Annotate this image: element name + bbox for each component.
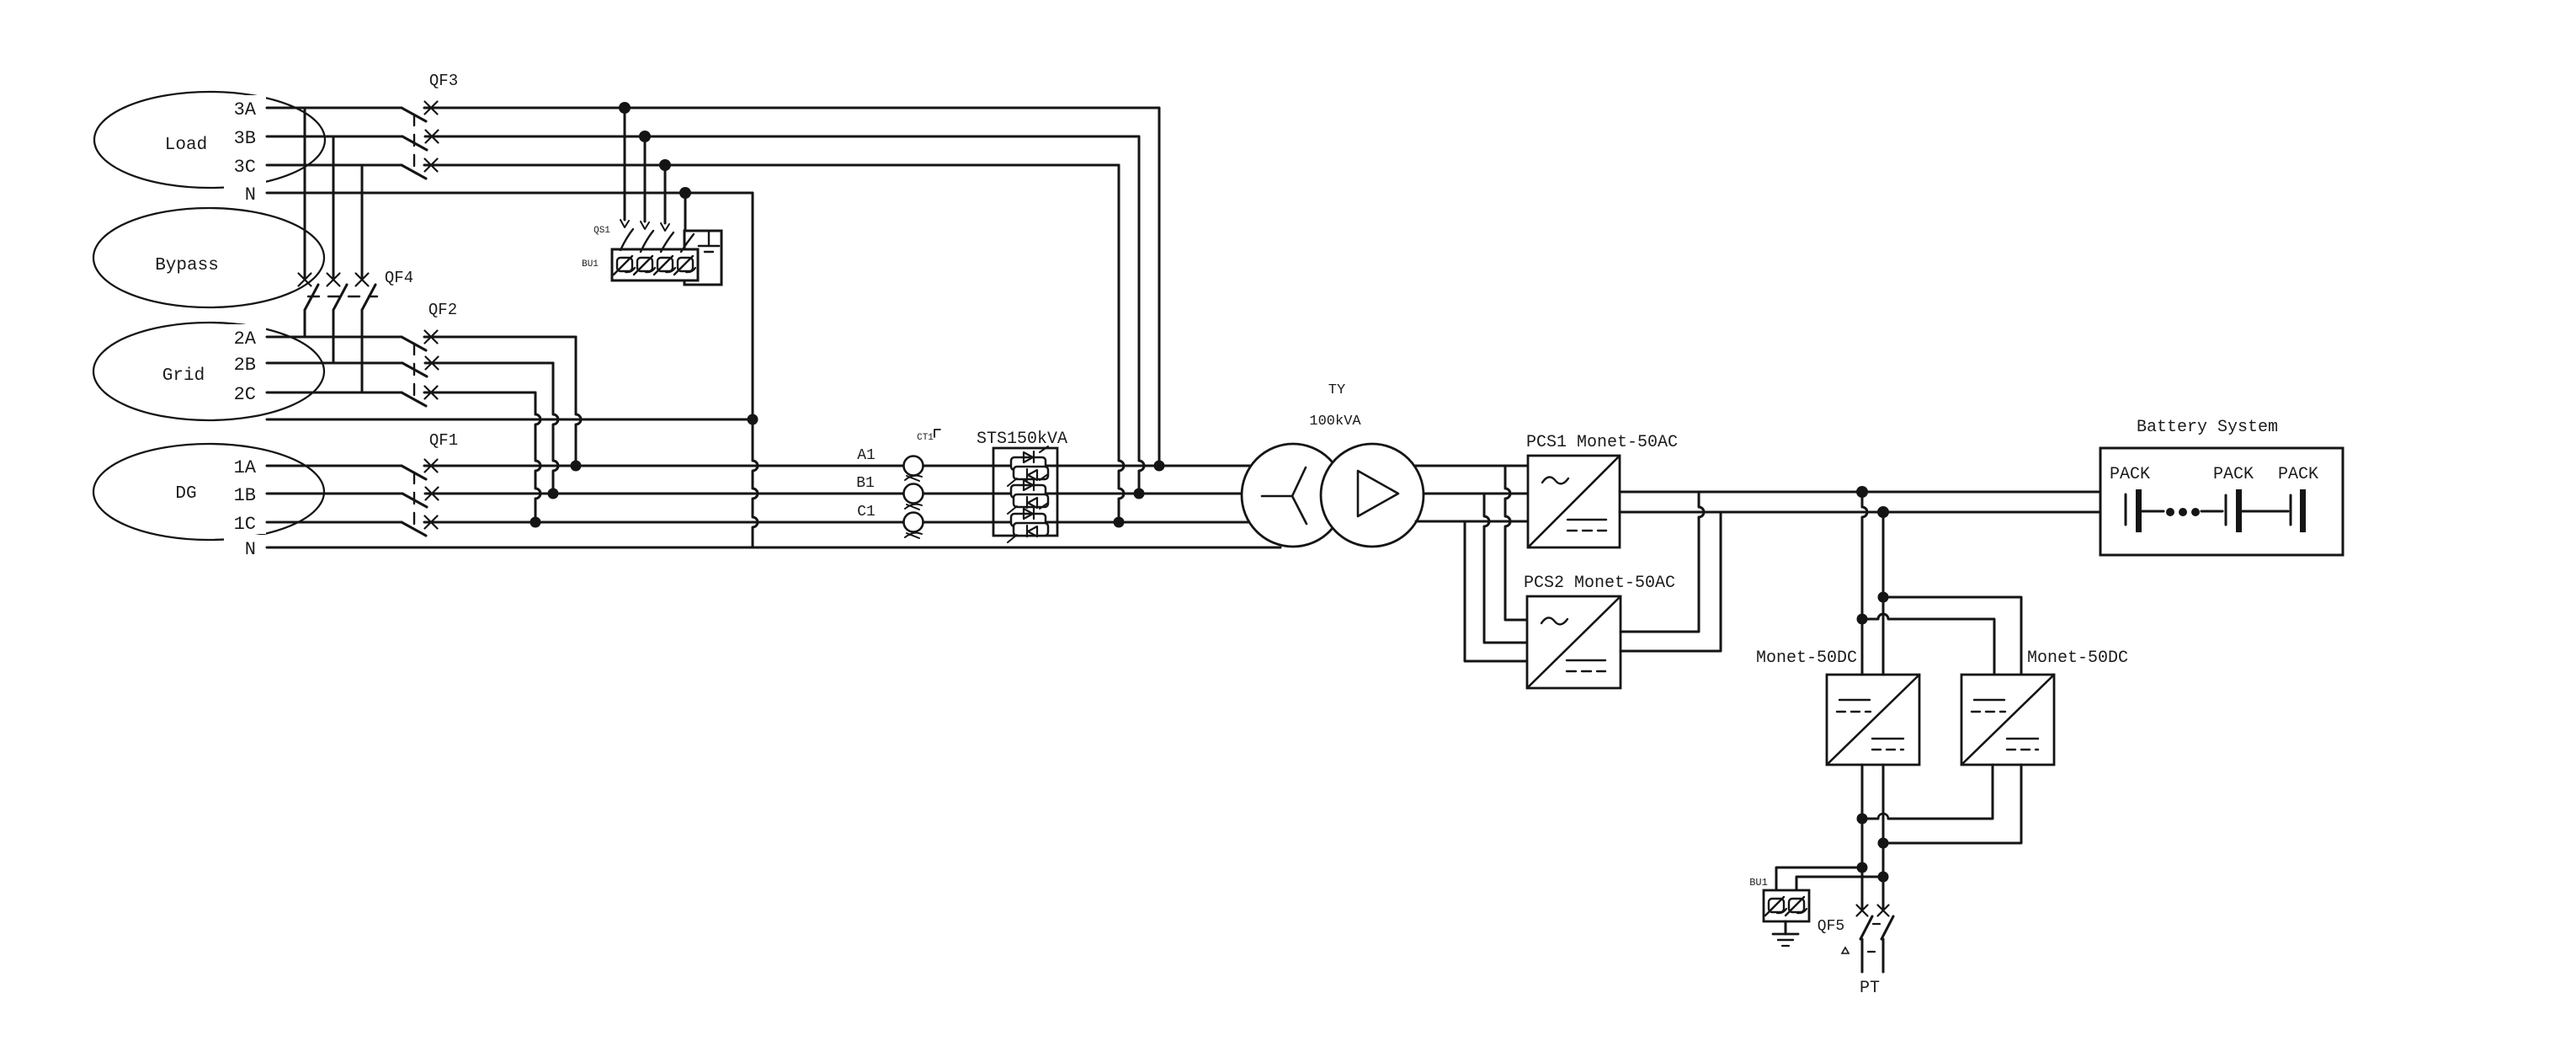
wire 2B from Grid to QF2 <box>267 362 402 365</box>
surge arrester element pole 1 <box>617 258 632 271</box>
svg-text:Battery System: Battery System <box>2137 418 2278 437</box>
STS thyristor pair phase A <box>1011 457 1046 470</box>
wire QF4 pole A to 2A <box>304 310 306 337</box>
CT CT1 phase C circle <box>904 513 923 532</box>
converter DC/DC left output DC symbol <box>1872 738 1903 739</box>
svg-text:PACK: PACK <box>2278 465 2318 484</box>
wire pack2 to pack3 <box>2242 510 2288 513</box>
wire DC negative drop <box>1882 512 1885 843</box>
converter DC/DC right input DC symbol <box>1974 699 2004 701</box>
breaker QF5 pole 1 contact X <box>1857 905 1868 916</box>
wire 2B from QF2 to corner x657 <box>425 362 553 365</box>
node N bus junction at x894 <box>748 414 758 425</box>
svg-text:1A: 1A <box>234 457 257 478</box>
wire bus A1 from QF1 to transformer <box>424 465 1252 467</box>
breaker QF5 pole 2 blade <box>1881 916 1893 939</box>
wire PCS2 output positive riser <box>1621 492 1704 632</box>
svg-text:QF5: QF5 <box>1818 918 1844 935</box>
battery system box <box>2100 448 2343 555</box>
breaker pole QF1-A blade <box>402 466 426 479</box>
ground symbol below BU1 <box>1773 933 1798 936</box>
wire branch negative to BU1 arrester <box>1796 877 1883 890</box>
svg-text:STS150kVA: STS150kVA <box>977 430 1067 449</box>
converter PCS2 box <box>1527 596 1621 688</box>
breaker pole QF1-A contact X <box>425 460 438 472</box>
wire tap 3B down to QF4 pole B <box>333 136 335 280</box>
surge arrester element pole 2 <box>637 258 652 271</box>
STS box <box>993 448 1057 536</box>
wire left DC converter input negative stub <box>1882 674 1885 676</box>
ellipsis dots between packs <box>2166 508 2174 516</box>
converter DC/DC left box <box>1827 675 1919 765</box>
QS1 disconnect arrow pole 2 <box>641 222 649 229</box>
node tap to right DC converter positive <box>1857 614 1868 625</box>
node 3C joins C1 <box>1114 517 1125 528</box>
breaker pole QF2-B blade <box>402 363 427 376</box>
svg-text:Monet-50DC: Monet-50DC <box>1756 649 1857 668</box>
converter PCS1 box <box>1528 456 1620 547</box>
svg-text:1C: 1C <box>234 514 256 535</box>
arrester BU1 box <box>1764 890 1809 921</box>
wire 2B drop to 1B bus <box>553 363 558 494</box>
wire DC positive drop <box>1862 492 1867 819</box>
arrester BU1 element 1 <box>1769 899 1784 912</box>
svg-text:TY: TY <box>1328 382 1345 398</box>
node DC bus positive tap <box>1856 486 1868 498</box>
wire branch positive to BU1 arrester <box>1776 867 1862 890</box>
breaker pole QF2-A contact X <box>425 331 438 344</box>
node 3A joins A1 <box>1154 461 1165 472</box>
source bubble Load ellipse <box>94 92 325 188</box>
CT CT1 phase A circle <box>904 456 923 476</box>
wire QF5 pole 1 to PT <box>1861 939 1864 972</box>
breaker pole QF1-C blade <box>402 522 426 536</box>
SPD ground box <box>684 231 721 285</box>
label background masks <box>224 95 266 120</box>
breaker QF4 pole C blade <box>362 285 375 310</box>
surge arrester element pole 3 <box>657 258 673 271</box>
transformer delta symbol <box>1358 471 1398 516</box>
QS1 blade curve pole 3 <box>661 232 673 252</box>
svg-text:Bypass: Bypass <box>155 256 219 275</box>
wire tap 3C down to QF4 pole C <box>361 165 364 280</box>
wire 3A from QF3 to corner x1377 <box>424 107 1159 109</box>
source bubble Grid ellipse <box>93 323 324 420</box>
svg-text:B1: B1 <box>856 475 875 492</box>
wire QF4 pole B to 2B <box>333 310 335 363</box>
QS1 blade curve pole 4 <box>681 234 694 252</box>
svg-text:BU1: BU1 <box>1749 877 1768 889</box>
svg-text:DG: DG <box>175 484 196 504</box>
breaker pole QF2-B contact X <box>426 357 439 370</box>
wire neutral bus between Grid and DG <box>267 419 753 421</box>
wire 2C from QF2 to corner x636 <box>424 392 535 394</box>
wire 2A drop to 1A bus <box>576 337 581 466</box>
node N SPD tap junction <box>679 187 691 199</box>
wire BU1 to ground <box>1785 921 1787 934</box>
CT CT1 phase A secondary squiggle <box>905 476 922 481</box>
STS thyristor pair phase C <box>1011 514 1046 526</box>
node BU1 branch negative <box>1878 872 1889 883</box>
converter DC/DC left input DC symbol <box>1839 699 1870 701</box>
svg-text:PACK: PACK <box>2213 465 2254 484</box>
breaker QF2 mechanical link (dashed) <box>413 344 415 401</box>
wire 2A from Grid to QF2 <box>267 336 402 339</box>
wire 3B tap down to QS1 pole 2 <box>644 136 647 222</box>
converter PCS2 AC sine symbol <box>1541 617 1567 624</box>
converter DC/DC right output DC symbol <box>2007 738 2038 739</box>
svg-text:3C: 3C <box>234 157 256 178</box>
node BU1 branch positive <box>1857 862 1868 873</box>
wire C1 transformer to PCS1 <box>1416 520 1528 523</box>
wire 3C from Load to QF3 <box>267 164 402 167</box>
breaker QF4 pole A contact X <box>299 274 311 286</box>
wire right converter positive join <box>1862 818 1878 820</box>
wire 2C from Grid to QF2 <box>267 392 402 394</box>
converter PCS2 diagonal <box>1527 596 1621 688</box>
node DC bus negative tap <box>1877 506 1889 518</box>
svg-text:PACK: PACK <box>2110 465 2150 484</box>
node tap to right DC converter negative <box>1878 592 1889 603</box>
svg-text:N: N <box>245 539 256 560</box>
breaker pole QF3-B blade <box>402 136 427 150</box>
svg-text:A1: A1 <box>857 447 876 464</box>
wire tap 3A down to QF4 pole A <box>304 108 306 280</box>
node parallel join positive <box>1857 814 1868 825</box>
wire dots to pack2 <box>2201 510 2222 513</box>
wire B1 transformer to PCS1 <box>1424 493 1528 495</box>
wire positive down to QF5 <box>1861 819 1864 910</box>
wire 3A tap down to QS1 pole 1 <box>624 108 626 220</box>
node 3A SPD tap junction <box>619 102 631 114</box>
svg-text:QF3: QF3 <box>429 72 458 90</box>
svg-text:2C: 2C <box>234 384 256 405</box>
wire PCS2 output negative riser <box>1621 512 1721 651</box>
breaker pole QF3-C contact X <box>425 159 438 172</box>
transformer TY primary circle (wye) <box>1242 444 1344 547</box>
wire 3C from QF3 to corner x1329 <box>424 164 1119 167</box>
breaker pole QF3-A contact X <box>425 102 438 115</box>
wire left DC converter input positive <box>1861 674 1864 676</box>
wire 1B from DG to QF1 <box>267 493 402 495</box>
wire A1 transformer to PCS1 <box>1414 465 1528 467</box>
svg-text:Load: Load <box>165 136 207 155</box>
node parallel join negative <box>1878 838 1889 849</box>
arrester BU1 element 2 <box>1789 899 1804 912</box>
breaker QF4 mechanical link (dashed) <box>308 296 377 297</box>
svg-text:QF2: QF2 <box>428 301 457 319</box>
svg-text:QS1: QS1 <box>593 226 610 236</box>
breaker QF5 pole 2 contact X <box>1878 905 1889 916</box>
CT CT1 phase C secondary squiggle <box>905 533 922 538</box>
wire 2A from QF2 to corner x684 <box>424 336 576 339</box>
svg-text:QF4: QF4 <box>385 269 413 287</box>
wire branch positive to right DC converter <box>1862 614 1994 675</box>
QS1 disconnect arrow pole 1 <box>620 220 629 227</box>
wire right DC converter output positive <box>1888 765 1993 819</box>
node 3B joins B1 <box>1134 488 1145 499</box>
wire bus C1 from QF1 to transformer <box>424 521 1250 524</box>
source bubble DG ellipse <box>93 444 324 540</box>
surge arrester element pole 4 <box>678 258 693 271</box>
svg-text:PT: PT <box>1860 979 1880 998</box>
breaker pole QF2-C blade <box>402 392 426 406</box>
svg-text:QF1: QF1 <box>429 431 458 450</box>
small triangle mark <box>1842 948 1849 953</box>
node 2B joins 1B <box>548 488 559 499</box>
QS1 blade curve pole 1 <box>620 229 633 250</box>
battery pack 2 positive plate <box>2236 489 2242 532</box>
wire tap B to PCS2 input 2 <box>1484 494 1527 643</box>
CT CT1 phase B circle <box>904 484 923 504</box>
QS1 blade curve pole 2 <box>641 231 653 252</box>
wire 1A from DG to QF1 <box>267 465 402 467</box>
battery pack 1 negative plate <box>2125 494 2127 525</box>
breaker QF4 pole A blade <box>305 285 318 310</box>
wire DC bus positive PCS1 to battery <box>1620 491 2100 494</box>
converter PCS2 DC symbol <box>1567 659 1605 661</box>
battery pack 3 positive plate <box>2300 489 2306 532</box>
wire left DC converter output negative <box>1882 765 1885 843</box>
converter DC/DC left diagonal <box>1827 675 1919 765</box>
breaker QF4 pole C contact X <box>356 274 369 286</box>
breaker pole QF1-B blade <box>402 494 427 507</box>
svg-text:100kVA: 100kVA <box>1309 414 1361 430</box>
STS thyristor pair phase B <box>1011 485 1046 498</box>
breaker QF4 pole B contact X <box>327 274 340 286</box>
transformer wye symbol <box>1262 467 1307 524</box>
breaker pole QF3-A blade <box>402 108 426 121</box>
breaker QF5 mechanical link (dashed) <box>1868 924 1880 952</box>
wire pack1 to dots <box>2142 510 2164 513</box>
svg-text:N: N <box>245 184 256 206</box>
svg-text:PCS1 Monet-50AC: PCS1 Monet-50AC <box>1526 433 1678 452</box>
breaker pole QF2-C contact X <box>425 387 438 399</box>
wire QF4 pole C to 2C <box>361 310 364 392</box>
breaker QF3 mechanical link (dashed) <box>413 115 415 172</box>
svg-text:3A: 3A <box>234 99 257 120</box>
wire 3B from Load to QF3 <box>267 136 402 138</box>
svg-text:BU1: BU1 <box>582 259 599 270</box>
node 3B SPD tap junction <box>639 131 651 142</box>
converter PCS1 AC sine symbol <box>1542 477 1568 483</box>
wire N tap down to SPD ground box <box>684 193 687 231</box>
wire 3B from QF3 to corner x1353 <box>425 136 1139 138</box>
wire QF5 pole 2 to PT <box>1882 939 1885 972</box>
converter DC/DC right diagonal <box>1961 675 2054 765</box>
wire 3A from Load to QF3 <box>267 107 402 109</box>
wire bus B1 from QF1 to transformer <box>425 493 1243 495</box>
transformer TY secondary circle (delta) <box>1321 444 1424 547</box>
breaker pole QF3-B contact X <box>426 131 439 143</box>
breaker QF1 mechanical link (dashed) <box>413 472 415 530</box>
breaker pole QF1-B contact X <box>426 488 439 500</box>
svg-text:Grid: Grid <box>162 366 205 386</box>
CT CT1 phase B secondary squiggle <box>905 504 922 510</box>
wire DG neutral to transformer star point <box>267 547 1280 549</box>
converter PCS1 DC symbol <box>1567 519 1606 520</box>
battery pack 3 negative plate <box>2290 495 2292 525</box>
battery pack 2 negative plate <box>2225 495 2227 525</box>
battery pack 1 positive plate <box>2136 489 2142 532</box>
breaker pole QF1-C contact X <box>425 516 438 529</box>
svg-text:Monet-50DC: Monet-50DC <box>2027 649 2128 668</box>
wire left DC converter output positive <box>1861 765 1864 819</box>
wire right DC converter output negative <box>1883 765 2021 843</box>
wire tap A to PCS2 input 1 <box>1505 466 1527 620</box>
svg-text:1B: 1B <box>234 485 256 506</box>
wire 3C drop to C1 bus <box>1119 165 1124 522</box>
svg-text:3B: 3B <box>234 128 256 149</box>
wire N Load neutral horizontal <box>267 192 753 195</box>
node 2C joins 1C <box>530 517 541 528</box>
QS1 disconnect arrow pole 3 <box>661 223 669 231</box>
breaker pole QF3-C blade <box>402 165 426 179</box>
svg-text:PCS2 Monet-50AC: PCS2 Monet-50AC <box>1524 574 1675 593</box>
wire negative down to QF5 <box>1882 843 1885 910</box>
source bubble Bypass ellipse <box>93 208 324 307</box>
svg-text:2A: 2A <box>234 328 257 350</box>
wire DC bus negative PCS1 to battery <box>1620 511 2100 514</box>
wire 1C from DG to QF1 <box>267 521 402 524</box>
wire tap C to PCS2 input 3 <box>1465 521 1527 661</box>
wire 3C tap down to QS1 pole 3 <box>664 165 667 223</box>
wire 2C drop to 1C bus <box>535 392 540 522</box>
wire branch negative to right DC converter <box>1883 597 2021 675</box>
wire 3B drop to B1 bus <box>1139 136 1144 494</box>
breaker QF5 pole 1 blade <box>1860 916 1872 939</box>
ground symbol in SPD box <box>708 232 710 246</box>
converter PCS1 diagonal <box>1528 456 1620 547</box>
wire Load N to down corner x894 <box>753 193 758 547</box>
converter DC/DC right box <box>1961 675 2054 765</box>
svg-text:2B: 2B <box>234 355 256 376</box>
node 2A joins 1A <box>571 461 582 472</box>
wire 3A drop to A1 bus <box>1158 108 1161 465</box>
svg-text:CT1: CT1 <box>917 433 934 443</box>
breaker pole QF2-A blade <box>402 337 426 350</box>
node 3C SPD tap junction <box>659 159 671 171</box>
breaker QF4 pole B blade <box>333 285 347 310</box>
SPD outer box BU1 <box>612 249 698 280</box>
svg-text:C1: C1 <box>857 504 876 520</box>
